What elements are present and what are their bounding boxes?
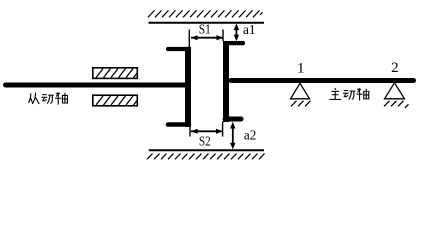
support 1 triangle [291,83,310,99]
driven shaft label 从动轴 [29,92,68,104]
dimension S2 arrow left [191,129,198,134]
support 2 hatching [384,101,409,108]
support 1 hatching [291,101,311,107]
svg-text:S2: S2 [199,135,211,150]
glyph 主 [329,88,341,99]
svg-text:2: 2 [391,60,399,76]
glyph 动 [41,95,53,104]
clutch left half top jaw [168,47,189,51]
glyph 轴 [55,92,67,104]
dimension S2 extension line left [189,127,191,137]
dimension S2 extension line right [222,122,224,137]
bottom wall hatching [147,154,265,160]
dimension S1 line [191,37,223,39]
driving shaft [231,78,414,83]
svg-text:a2: a2 [244,129,256,144]
dimension S1 arrow right [216,35,223,40]
dimension S2 arrow right [216,129,223,134]
dimension S1 extension line left [188,30,190,48]
clutch left half flange [185,47,191,127]
glyph 轴 [356,88,368,100]
svg-text:1: 1 [297,60,305,76]
clutch left half bottom jaw [168,122,189,127]
dimension a1 arrow [234,23,239,41]
bearing upper [93,68,138,79]
svg-text:S1: S1 [199,23,211,38]
clutch right half bottom jaw [225,117,241,122]
dimension S1 arrow left [191,35,198,40]
dimension a2 arrow [230,122,235,150]
top wall line [149,22,265,24]
clutch right half flange [223,41,229,122]
driven shaft [6,83,186,88]
driving shaft label 主动轴 [329,88,368,100]
support 2 triangle [385,83,405,99]
dimension S1 extension line right [222,30,224,42]
dimension S2 line [191,130,223,132]
glyph 从 [29,93,40,104]
svg-text:a1: a1 [243,23,256,38]
clutch right half top jaw [225,41,243,45]
top wall hatching [148,10,263,17]
bottom wall line [149,149,264,151]
bearing lower [93,95,138,106]
glyph 动 [343,91,355,100]
